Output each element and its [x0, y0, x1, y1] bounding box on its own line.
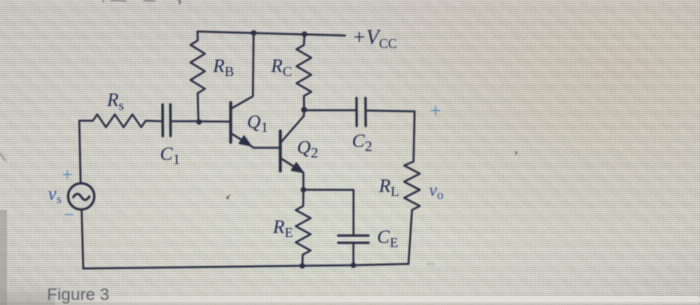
svg-text:Q2: Q2 — [297, 138, 318, 162]
resistor RL — [404, 162, 420, 264]
svg-text:−: − — [64, 205, 74, 225]
wire top rail — [198, 32, 346, 36]
transistor Q2 — [280, 111, 304, 190]
node: RB bottom / C1 / Q1 base — [196, 119, 202, 125]
svg-text:CE: CE — [377, 227, 398, 251]
resistor Rs — [79, 114, 162, 127]
stray smudge left edge — [0, 153, 6, 161]
node: RC bottom / Q2 collector / C2 — [301, 107, 307, 113]
resistor RB — [191, 32, 205, 122]
svg-text:C2: C2 — [352, 131, 372, 155]
capacitor CE branch — [303, 190, 368, 266]
svg-text:+: + — [430, 100, 441, 122]
svg-text:Figure 3: Figure 3 — [47, 285, 109, 304]
svg-text:C1: C1 — [160, 144, 180, 168]
capacitor C1 — [163, 105, 199, 137]
svg-text:RE: RE — [272, 217, 293, 241]
node: CE bottom at ground rail — [351, 262, 357, 268]
node: Q1 collector at Vcc rail — [251, 30, 257, 36]
svg-text:+VCC: +VCC — [352, 25, 397, 51]
node: RE bottom at ground rail — [300, 263, 306, 269]
svg-text:Rs: Rs — [106, 90, 124, 114]
svg-text:RC: RC — [270, 56, 292, 80]
source Vs branch — [68, 121, 94, 269]
capacitor C2 branch — [304, 98, 415, 162]
svg-text:’: ’ — [514, 148, 518, 163]
transistor Q1 — [231, 33, 281, 148]
svg-text:vs: vs — [48, 184, 62, 206]
svg-text:RB: RB — [212, 56, 234, 80]
node: RC top at Vcc rail — [302, 31, 308, 37]
node: Q2 emitter / RE top / CE — [301, 187, 307, 193]
wire Q1 base — [198, 120, 230, 122]
svg-text:Q1: Q1 — [247, 112, 268, 136]
resistor RE — [296, 190, 311, 266]
svg-text:+: + — [62, 165, 73, 186]
stray speck — [226, 196, 229, 199]
svg-text:RL: RL — [378, 176, 399, 200]
resistor RC — [297, 34, 312, 110]
wire bottom rail — [83, 264, 408, 269]
cropped text fragment at top — [103, 0, 180, 3]
svg-text:−: − — [426, 255, 436, 274]
svg-text:vo: vo — [429, 180, 444, 202]
